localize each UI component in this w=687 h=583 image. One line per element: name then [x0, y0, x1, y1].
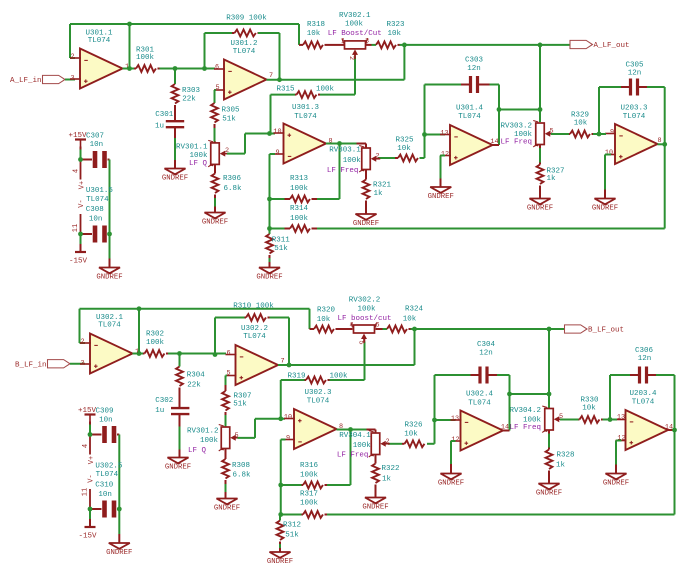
resistor R330	[579, 396, 603, 422]
junction	[672, 428, 677, 433]
svg-text:C303: C303	[465, 57, 484, 65]
global label A_LF_in	[10, 75, 65, 85]
svg-text:5: 5	[215, 84, 219, 92]
svg-text:1k: 1k	[373, 190, 383, 198]
wire	[668, 429, 675, 431]
svg-text:U302.3: U302.3	[304, 389, 332, 397]
wire	[244, 134, 246, 154]
wire	[270, 153, 276, 155]
svg-text:GNDREF: GNDREF	[362, 503, 388, 511]
svg-text:11: 11	[72, 224, 80, 232]
svg-text:-15V: -15V	[69, 258, 88, 266]
svg-text:100k: 100k	[146, 339, 165, 347]
wire	[330, 379, 365, 381]
svg-text:GNDREF: GNDREF	[106, 549, 132, 557]
svg-text:R305: R305	[221, 107, 240, 115]
wire	[435, 419, 456, 421]
op-amp U301.1	[70, 30, 129, 89]
svg-text:C302: C302	[155, 397, 173, 405]
svg-text:+15V: +15V	[68, 132, 87, 140]
wire	[337, 429, 351, 431]
svg-text:R313: R313	[290, 175, 309, 183]
wire	[610, 419, 617, 421]
svg-text:6.8k: 6.8k	[223, 185, 242, 193]
resistor R313	[270, 175, 340, 202]
svg-text:GNDREF: GNDREF	[603, 479, 629, 487]
svg-text:TL074: TL074	[623, 113, 646, 121]
svg-text:R312: R312	[283, 522, 301, 530]
svg-text:51k: 51k	[233, 401, 247, 409]
junction	[278, 416, 283, 421]
wire	[366, 44, 372, 46]
svg-text:TL074: TL074	[96, 471, 119, 479]
capacitor C302	[155, 397, 189, 415]
svg-text:LF Freq: LF Freq	[509, 424, 541, 432]
wire	[376, 328, 383, 330]
svg-text:V+: V+	[88, 456, 96, 464]
wire	[551, 133, 569, 135]
svg-text:GNDREF: GNDREF	[96, 273, 122, 281]
wire	[616, 441, 622, 474]
potentiometer RV302.2	[337, 297, 391, 345]
svg-text:R317: R317	[300, 491, 318, 499]
power +15V	[68, 132, 87, 147]
resistor R323	[376, 21, 405, 48]
wire	[327, 514, 675, 516]
svg-text:R304: R304	[187, 372, 206, 380]
junction	[173, 66, 178, 71]
svg-text:RV304.2: RV304.2	[509, 407, 541, 415]
resistor R328	[546, 430, 575, 484]
global label B_LF_out	[565, 325, 625, 335]
resistor R301	[134, 47, 160, 72]
junction	[88, 432, 93, 437]
svg-text:100k: 100k	[343, 157, 362, 165]
ground GNDREF	[592, 199, 618, 213]
junction	[267, 197, 272, 202]
capacitor C301	[155, 111, 184, 131]
wire	[609, 375, 611, 420]
wire	[80, 147, 82, 160]
svg-text:R320: R320	[317, 307, 336, 315]
wire	[281, 379, 305, 381]
svg-text:R309 100k: R309 100k	[226, 15, 267, 23]
svg-text:10n: 10n	[89, 216, 103, 224]
resistor R302	[143, 331, 168, 357]
svg-text:100k: 100k	[353, 442, 372, 450]
junction	[137, 351, 142, 356]
junction	[432, 418, 437, 423]
resistor R310	[245, 314, 270, 321]
junction	[597, 132, 602, 137]
potentiometer RV304.1	[337, 430, 390, 460]
svg-text:12n: 12n	[479, 350, 493, 358]
svg-text:C310: C310	[95, 481, 114, 489]
svg-text:4: 4	[73, 169, 81, 173]
svg-text:51k: 51k	[222, 116, 236, 124]
svg-text:GNDREF: GNDREF	[165, 463, 191, 471]
svg-text:13: 13	[617, 413, 625, 421]
potentiometer RV303.1	[327, 144, 380, 176]
svg-text:1: 1	[341, 37, 345, 45]
svg-text:100k: 100k	[316, 86, 335, 94]
svg-text:51k: 51k	[274, 245, 288, 253]
svg-text:B_LF_out: B_LF_out	[588, 327, 624, 335]
svg-text:GNDREF: GNDREF	[438, 479, 464, 487]
svg-text:R329: R329	[571, 112, 589, 120]
wire	[499, 109, 540, 111]
svg-text:6.8k: 6.8k	[232, 471, 251, 479]
wire	[214, 124, 216, 142]
wire	[593, 133, 599, 135]
capacitor C310	[90, 481, 119, 517]
wire	[378, 157, 395, 159]
capacitor C304	[477, 341, 496, 383]
svg-text:10: 10	[273, 128, 281, 136]
junction	[267, 226, 272, 231]
wire	[503, 430, 510, 432]
svg-text:LF Freq: LF Freq	[337, 451, 369, 459]
svg-text:R325: R325	[395, 137, 414, 145]
svg-text:10n: 10n	[99, 416, 113, 424]
svg-text:10n: 10n	[90, 141, 104, 149]
op-amp U301.4	[440, 105, 499, 165]
svg-text:C309: C309	[95, 408, 113, 416]
svg-text:4: 4	[82, 444, 90, 448]
svg-text:10k: 10k	[574, 120, 588, 128]
wire	[339, 144, 341, 200]
wire	[509, 375, 511, 431]
junction	[608, 417, 613, 422]
svg-text:R323: R323	[386, 21, 405, 29]
resistor R306	[212, 165, 242, 213]
svg-text:10k: 10k	[403, 316, 417, 324]
junction	[177, 351, 182, 356]
wire	[238, 437, 256, 439]
wire	[254, 419, 256, 438]
wire	[69, 24, 71, 58]
wire	[298, 24, 300, 45]
wire	[424, 135, 426, 159]
wire	[400, 44, 405, 46]
svg-text:V+: V+	[79, 181, 87, 189]
svg-text:5: 5	[226, 369, 230, 377]
op-amp U302.2	[226, 325, 285, 385]
junction	[278, 483, 283, 488]
op-amp U301.2	[214, 40, 273, 99]
svg-text:TL074: TL074	[307, 398, 330, 406]
resistor R319	[287, 373, 348, 384]
svg-text:22k: 22k	[182, 96, 196, 104]
svg-text:100k: 100k	[290, 185, 309, 193]
svg-text:+15V: +15V	[78, 407, 97, 415]
junction	[78, 157, 83, 162]
svg-text:TL074: TL074	[88, 37, 111, 45]
svg-text:10k: 10k	[397, 145, 411, 153]
resistor R309	[232, 30, 260, 37]
wire	[364, 338, 366, 342]
ground GNDREF	[603, 474, 629, 488]
wire	[434, 420, 436, 444]
wire	[129, 24, 131, 69]
svg-text:GNDREF: GNDREF	[353, 220, 379, 228]
svg-text:RV304.1: RV304.1	[339, 432, 371, 440]
wire	[160, 68, 216, 70]
ground GNDREF	[353, 214, 379, 228]
junction	[662, 142, 667, 147]
svg-text:13: 13	[451, 415, 459, 423]
svg-text:100k: 100k	[357, 306, 376, 314]
resistor R314	[270, 205, 318, 232]
svg-text:LF Q: LF Q	[189, 160, 208, 168]
resistor R326	[402, 422, 435, 447]
resistor R324	[387, 306, 423, 333]
junction	[348, 427, 353, 432]
capacitor C308	[81, 206, 110, 242]
svg-text:C307: C307	[86, 132, 104, 140]
wire	[317, 228, 665, 230]
junction	[402, 43, 407, 48]
svg-text:U203.3: U203.3	[620, 105, 648, 113]
svg-text:100k: 100k	[136, 54, 155, 62]
wire	[227, 153, 245, 155]
wire	[271, 94, 296, 96]
wire	[350, 430, 352, 486]
capacitor C305	[625, 62, 644, 96]
svg-text:RV302.2: RV302.2	[349, 297, 381, 305]
wire	[451, 441, 456, 474]
svg-text:TL074: TL074	[632, 399, 655, 407]
svg-text:12n: 12n	[628, 70, 642, 78]
svg-text:LF Boost/Cut: LF Boost/Cut	[328, 30, 382, 38]
junction	[213, 352, 218, 357]
junction	[538, 43, 543, 48]
svg-text:R310 100k: R310 100k	[233, 303, 274, 311]
svg-text:2: 2	[385, 438, 389, 446]
resistor R304	[176, 367, 205, 408]
junction	[202, 66, 207, 71]
wire	[424, 85, 426, 135]
svg-text:R318: R318	[307, 21, 325, 29]
svg-text:U302.5: U302.5	[95, 462, 123, 470]
capacitor C309	[90, 408, 119, 443]
junction	[497, 107, 502, 112]
wire	[383, 328, 388, 330]
svg-text:1k: 1k	[546, 175, 556, 183]
wire	[225, 412, 227, 427]
ground GNDREF	[256, 268, 282, 282]
svg-text:10k: 10k	[307, 30, 321, 38]
wire	[354, 57, 356, 95]
svg-text:U301.4: U301.4	[456, 105, 484, 113]
svg-text:C304: C304	[477, 341, 496, 349]
wire	[123, 68, 135, 70]
svg-text:10k: 10k	[404, 431, 418, 439]
svg-text:C305: C305	[625, 62, 644, 70]
svg-text:TL074: TL074	[468, 400, 491, 408]
wire	[548, 329, 550, 408]
wire	[425, 84, 471, 86]
svg-text:GNDREF: GNDREF	[536, 489, 562, 497]
label R309 100k	[226, 15, 267, 23]
svg-text:R311: R311	[272, 237, 291, 245]
wire	[214, 318, 216, 355]
wire	[320, 94, 355, 96]
svg-text:B_LF_in: B_LF_in	[15, 361, 47, 369]
op-amp U301.5 power pins	[72, 160, 114, 235]
wire	[168, 353, 226, 355]
potentiometer RV304.2	[509, 406, 563, 433]
wire	[364, 342, 366, 381]
resistor R315	[276, 86, 334, 98]
svg-text:GNDREF: GNDREF	[202, 218, 228, 226]
resistor R312	[277, 515, 301, 553]
ground GNDREF	[202, 213, 228, 227]
svg-text:R319: R319	[287, 373, 305, 381]
svg-text:12n: 12n	[638, 355, 652, 363]
wire	[598, 87, 600, 134]
wire	[70, 57, 75, 59]
svg-text:3: 3	[80, 359, 84, 367]
svg-text:6: 6	[215, 63, 219, 71]
wire	[309, 309, 311, 329]
svg-text:TL074: TL074	[233, 48, 256, 56]
svg-text:2: 2	[347, 56, 355, 60]
svg-text:6: 6	[226, 349, 230, 357]
potentiometer RV301.2	[187, 425, 240, 456]
wire	[610, 419, 617, 421]
wire	[599, 133, 606, 135]
ground GNDREF	[428, 187, 454, 201]
resistor R307	[222, 385, 251, 411]
wire	[270, 317, 290, 319]
svg-text:100k: 100k	[300, 500, 319, 508]
svg-text:1u: 1u	[155, 123, 164, 131]
wire	[109, 160, 111, 235]
junction	[107, 232, 112, 237]
wire	[658, 143, 665, 145]
svg-text:R326: R326	[404, 422, 423, 430]
wire	[281, 439, 286, 441]
junction	[507, 392, 512, 397]
svg-text:12: 12	[451, 436, 459, 444]
wire	[118, 509, 120, 543]
svg-text:RV303.2: RV303.2	[500, 123, 532, 131]
wire	[414, 329, 416, 365]
junction	[337, 141, 342, 146]
junction	[117, 507, 122, 512]
ground GNDREF	[536, 484, 562, 498]
svg-text:22k: 22k	[187, 382, 201, 390]
svg-text:LF Freq: LF Freq	[327, 167, 359, 175]
resistor R303	[172, 84, 201, 120]
resistor R320	[310, 307, 342, 333]
svg-text:U301.2: U301.2	[230, 40, 257, 48]
svg-text:RV301.2: RV301.2	[187, 428, 219, 436]
global label A_LF_out	[570, 40, 630, 50]
junction	[412, 327, 417, 332]
svg-text:R330: R330	[580, 396, 599, 404]
svg-text:R328: R328	[556, 451, 574, 459]
wire	[638, 86, 665, 88]
wire	[415, 328, 565, 330]
wire	[174, 69, 176, 85]
svg-text:R303: R303	[182, 87, 201, 95]
resistor R308	[222, 449, 251, 499]
svg-text:100k: 100k	[290, 215, 309, 223]
svg-text:R316: R316	[300, 462, 319, 470]
svg-text:TL074: TL074	[294, 113, 317, 121]
potentiometer RV303.2	[500, 121, 554, 148]
svg-text:9: 9	[275, 149, 279, 157]
power +15V	[78, 407, 97, 422]
wire	[205, 32, 234, 34]
ground GNDREF	[438, 474, 464, 488]
svg-text:GNDREF: GNDREF	[527, 204, 553, 212]
svg-text:51k: 51k	[285, 531, 299, 539]
wire	[179, 354, 181, 367]
svg-text:1u: 1u	[155, 407, 164, 415]
junction	[278, 512, 283, 517]
wire	[280, 380, 282, 419]
wire	[215, 90, 217, 103]
wire	[226, 376, 228, 386]
resistor R327	[537, 145, 565, 199]
global label B_LF_in	[15, 360, 70, 370]
wire	[434, 375, 436, 420]
resistor R311	[266, 229, 290, 268]
op-amp U301.3	[273, 104, 332, 163]
ground GNDREF	[162, 169, 188, 183]
svg-text:R324: R324	[405, 306, 424, 314]
svg-text:C301: C301	[155, 111, 174, 119]
svg-text:11: 11	[82, 488, 90, 496]
power -15V	[69, 234, 88, 266]
wire	[493, 144, 500, 146]
svg-text:RV301.1: RV301.1	[176, 143, 208, 151]
svg-text:R321: R321	[373, 181, 392, 189]
wire	[258, 32, 280, 34]
svg-text:C308: C308	[86, 206, 104, 214]
svg-text:10n: 10n	[98, 491, 112, 499]
svg-text:100k: 100k	[300, 471, 319, 479]
svg-text:TL074: TL074	[458, 113, 481, 121]
svg-text:1: 1	[135, 348, 139, 356]
wire	[388, 443, 402, 445]
junction	[277, 77, 282, 82]
svg-text:RV303.1: RV303.1	[329, 147, 361, 155]
op-amp U302.1	[80, 314, 139, 373]
resistor R325	[395, 137, 425, 162]
wire	[599, 86, 630, 88]
wire	[351, 429, 367, 431]
wire	[605, 155, 611, 199]
wire	[133, 353, 144, 355]
capacitor C307	[81, 132, 110, 168]
svg-text:U203.4: U203.4	[629, 390, 657, 398]
svg-text:GNDREF: GNDREF	[162, 174, 188, 182]
svg-text:TL074: TL074	[98, 322, 121, 330]
svg-text:LF boost/cut: LF boost/cut	[337, 315, 391, 323]
resistor R318	[299, 21, 330, 48]
junction	[127, 66, 132, 71]
svg-text:2: 2	[70, 53, 74, 61]
wire	[174, 127, 176, 169]
svg-text:U302.2: U302.2	[241, 325, 268, 333]
wire	[354, 53, 356, 56]
wire	[269, 154, 271, 229]
svg-text:1k: 1k	[382, 476, 392, 484]
